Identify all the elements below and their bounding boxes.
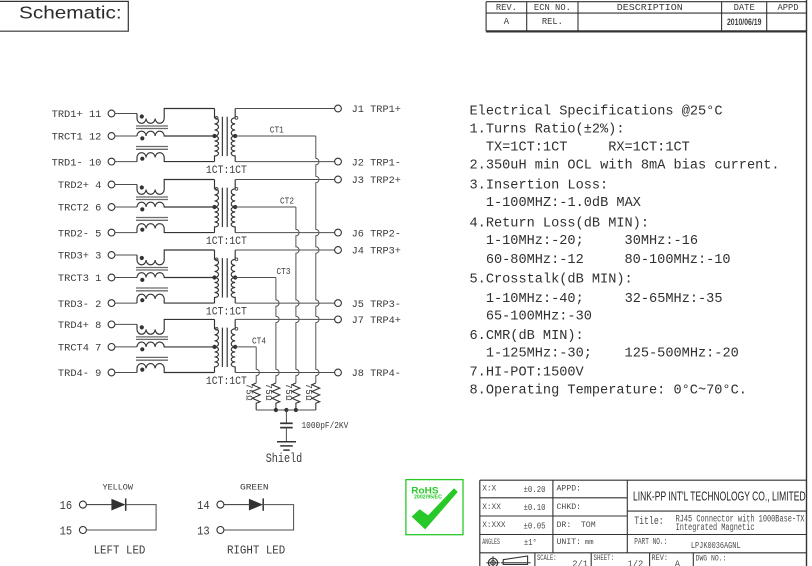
svg-text:REV.: REV. [496, 3, 517, 13]
svg-text:A: A [675, 559, 681, 566]
svg-text:CHKD:: CHKD: [557, 503, 582, 512]
svg-text:TRD4- 9: TRD4- 9 [58, 368, 102, 380]
svg-text:J8 TRP4-: J8 TRP4- [352, 368, 401, 380]
svg-text:J2 TRP1-: J2 TRP1- [352, 157, 401, 169]
svg-text:J5 TRP3-: J5 TRP3- [352, 299, 401, 311]
schematic title box [0, 1, 128, 31]
label YELLOW [103, 482, 134, 492]
terminal J6 TRP2- [335, 228, 401, 240]
svg-text:TX=1CT:1CT RX=1CT:1CT: TX=1CT:1CT RX=1CT:1CT [470, 140, 690, 155]
svg-text:1.Turns Ratio(±2%):: 1.Turns Ratio(±2%): [470, 123, 625, 138]
label CT1 [270, 124, 284, 135]
wire T3 secondary- to J5 [235, 302, 334, 304]
svg-text:13: 13 [197, 525, 210, 538]
wire anode pin 14 [224, 504, 249, 506]
svg-text:SHEET:: SHEET: [594, 553, 615, 563]
svg-text:TRD2- 5: TRD2- 5 [58, 228, 102, 240]
label CT2 [280, 195, 294, 206]
label 1CT:1CT T2 [206, 236, 247, 248]
drawn/checked column text [557, 485, 596, 547]
svg-text:CT3: CT3 [277, 266, 291, 277]
svg-text:1CT:1CT: 1CT:1CT [206, 236, 247, 248]
svg-text:60-80MHz:-12 80-100MHz:-10: 60-80MHz:-12 80-100MHz:-10 [470, 253, 731, 268]
wire cathode to pin 15 [86, 505, 156, 530]
common-mode choke CM4 [136, 319, 215, 372]
svg-text:Title:: Title: [634, 516, 664, 528]
svg-text:1CT:1CT: 1CT:1CT [206, 165, 247, 177]
label GREEN [240, 482, 269, 492]
electrical specifications text block [470, 105, 780, 399]
svg-text:16: 16 [60, 500, 73, 513]
svg-text:2002/95/EC: 2002/95/EC [414, 495, 442, 501]
svg-text:CT2: CT2 [280, 195, 294, 206]
svg-text:±0.05: ±0.05 [524, 521, 546, 531]
terminal J3 TRP2+ [335, 175, 401, 187]
svg-text:J7 TRP4+: J7 TRP4+ [352, 315, 401, 327]
svg-text:TRCT2 6: TRCT2 6 [58, 203, 102, 215]
svg-text:6.CMR(dB MIN):: 6.CMR(dB MIN): [470, 329, 584, 344]
label 1CT:1CT T1 [206, 165, 247, 177]
svg-text:Schematic:: Schematic: [19, 3, 122, 23]
wire T1 secondary- to J2 [235, 161, 334, 163]
svg-text:CT4: CT4 [252, 335, 266, 346]
svg-text:2.350uH min OCL with 8mA bias: 2.350uH min OCL with 8mA bias current. [470, 158, 780, 173]
capacitor C1 1000pF/2KV [280, 410, 293, 442]
wire CT2 vertical bus with hops [296, 207, 299, 383]
wire T4 secondary+ to J7 [235, 318, 334, 320]
svg-text:7.HI-POT:1500V: 7.HI-POT:1500V [470, 366, 584, 381]
wire CT1 center tap [235, 135, 316, 137]
terminal pin 13 [217, 527, 224, 534]
svg-text:2/1: 2/1 [572, 560, 588, 566]
svg-text:Electrical Specifications @25°: Electrical Specifications @25°C [470, 105, 723, 120]
svg-text:REL.: REL. [542, 17, 563, 27]
transformer T3 (1CT:1CT) [212, 250, 237, 303]
diode D YELLOW LED [111, 498, 125, 510]
terminal pin 10 (TRD1-) [52, 157, 137, 169]
revision table header text [496, 3, 799, 13]
terminal pin 12 (TRCT1) [52, 132, 137, 144]
terminal pin 5 (TRD2-) [58, 228, 137, 240]
terminal J1 TRP1+ [335, 104, 401, 116]
svg-text:mm: mm [585, 539, 594, 547]
terminal pin 16 [79, 501, 86, 508]
transformer T1 (1CT:1CT) [212, 109, 237, 162]
svg-text:TRCT4 7: TRCT4 7 [58, 343, 102, 355]
part number [634, 537, 740, 551]
svg-text:75Ω: 75Ω [283, 384, 293, 402]
svg-text:ANGLES: ANGLES [482, 539, 500, 547]
label R3 75Ω [263, 384, 273, 402]
svg-text:2010/06/19: 2010/06/19 [727, 17, 762, 27]
svg-text:1CT:1CT: 1CT:1CT [206, 376, 247, 388]
svg-text:8.Operating Temperature: 0°C~7: 8.Operating Temperature: 0°C~70°C. [470, 383, 747, 398]
title text [634, 514, 804, 534]
label R1 75Ω [303, 384, 313, 402]
common-mode choke CM1 [136, 109, 215, 162]
svg-text:4.Return Loss(dB MIN):: 4.Return Loss(dB MIN): [470, 216, 650, 231]
label CT4 [252, 335, 266, 346]
svg-text:TRD2+ 4: TRD2+ 4 [58, 180, 102, 192]
revision table row A [504, 17, 762, 27]
svg-text:1CT:1CT: 1CT:1CT [206, 306, 247, 318]
svg-text:DWG NO.:: DWG NO.: [696, 553, 727, 563]
terminal J4 TRP3+ [335, 246, 401, 258]
tolerance column text [482, 485, 545, 548]
svg-text:J1 TRP1+: J1 TRP1+ [352, 104, 401, 116]
svg-text:1-100MHZ:-1.0dB MAX: 1-100MHZ:-1.0dB MAX [470, 196, 641, 211]
diode D GREEN LED [249, 498, 263, 510]
svg-text:5.Crosstalk(dB MIN):: 5.Crosstalk(dB MIN): [470, 273, 633, 288]
ground (Shield) [277, 442, 296, 450]
svg-text:SCALE:: SCALE: [537, 553, 557, 563]
scale/sheet/rev row text [537, 553, 726, 566]
terminal J7 TRP4+ [335, 315, 401, 327]
wire CT1 vertical bus with hops [316, 136, 319, 383]
svg-text:APPD: APPD [777, 3, 798, 13]
label RIGHT LED [227, 544, 285, 558]
wire CT3 center tap [235, 277, 276, 279]
svg-text:DR:: DR: [557, 521, 572, 530]
svg-text:TRCT3 1: TRCT3 1 [58, 273, 102, 285]
resistor R3 75Ω [272, 383, 280, 410]
common-mode choke CM2 [136, 180, 215, 233]
terminal pin 7 (TRCT4) [58, 343, 137, 355]
svg-text:75Ω: 75Ω [244, 384, 254, 402]
label CT3 [277, 266, 291, 277]
wire resistor common rail [256, 409, 316, 411]
svg-text:X:X: X:X [482, 486, 496, 494]
transformer T4 (1CT:1CT) [212, 319, 237, 372]
svg-text:3.Insertion Loss:: 3.Insertion Loss: [470, 179, 609, 194]
svg-text:TRCT1 12: TRCT1 12 [52, 132, 102, 144]
wire CT4 center tap [235, 346, 256, 348]
wire T3 secondary+ to J4 [235, 249, 334, 251]
wire cathode to pin 13 [224, 505, 294, 530]
svg-text:1-10MHz:-20; 30MHz:-16: 1-10MHz:-20; 30MHz:-16 [470, 234, 699, 249]
svg-text:X:XXX: X:XXX [482, 522, 506, 530]
wire T1 secondary+ to J1 [235, 108, 334, 110]
svg-text:TOM: TOM [581, 521, 596, 530]
svg-text:X:XX: X:XX [482, 504, 501, 512]
junction dots on rail [274, 408, 298, 412]
terminal J8 TRP4- [335, 368, 401, 380]
terminal J5 TRP3- [335, 299, 401, 311]
svg-text:TRD1+ 11: TRD1+ 11 [52, 109, 102, 121]
terminal pin 15 [79, 527, 86, 534]
wire CT3 vertical bus with hops [276, 278, 279, 384]
terminal pin 2 (TRD3-) [58, 299, 137, 311]
svg-text:65-100MHz:-30: 65-100MHz:-30 [470, 310, 592, 325]
svg-text:LEFT LED: LEFT LED [94, 544, 146, 558]
svg-text:GREEN: GREEN [240, 482, 269, 492]
svg-text:75Ω: 75Ω [263, 384, 273, 402]
svg-text:Shield: Shield [266, 451, 303, 466]
label LEFT LED [94, 544, 146, 558]
title block frame [480, 480, 807, 566]
wire CT4 vertical bus with hops [256, 347, 259, 383]
wire anode pin 16 [86, 504, 111, 506]
terminal pin 4 (TRD2+) [58, 180, 137, 192]
svg-text:UNIT:: UNIT: [557, 538, 582, 547]
revision table frame [486, 2, 806, 32]
svg-text:1-10MHz:-40; 32-65MHz:-35: 1-10MHz:-40; 32-65MHz:-35 [470, 292, 723, 307]
svg-text:DATE: DATE [734, 3, 755, 13]
svg-text:±0.10: ±0.10 [524, 503, 546, 513]
label Shield [266, 451, 303, 466]
svg-text:DESCRIPTION: DESCRIPTION [617, 3, 683, 13]
company name [633, 490, 806, 504]
common-mode choke CM3 [136, 250, 215, 303]
terminal pin 11 (TRD1+) [52, 109, 137, 121]
svg-text:1/2: 1/2 [628, 560, 644, 566]
svg-text:15: 15 [60, 525, 73, 538]
svg-text:LPJK0036AGNL: LPJK0036AGNL [691, 540, 741, 551]
terminal pin 3 (TRD3+) [58, 251, 137, 263]
svg-text:TRD1- 10: TRD1- 10 [52, 157, 102, 169]
svg-text:APPD:: APPD: [557, 485, 582, 494]
svg-text:TRD4+ 8: TRD4+ 8 [58, 320, 102, 332]
label R2 75Ω [283, 384, 293, 402]
resistor R1 75Ω [312, 383, 320, 410]
svg-text:75Ω: 75Ω [303, 384, 313, 402]
label R4 75Ω [244, 384, 254, 402]
RoHS logo [406, 480, 463, 535]
terminal pin 8 (TRD4+) [58, 320, 137, 332]
svg-text:TRD3- 2: TRD3- 2 [58, 299, 102, 311]
svg-text:A: A [504, 17, 510, 27]
labels pins 16/15 [60, 500, 73, 538]
label 1CT:1CT T3 [206, 306, 247, 318]
svg-text:±0.20: ±0.20 [524, 485, 546, 495]
svg-text:1-125MHz:-30; 125-500MHz:-2: 1-125MHz:-30; 125-500MHz:-20 [470, 346, 739, 361]
terminal pin 14 [217, 501, 224, 508]
svg-text:YELLOW: YELLOW [103, 482, 134, 492]
svg-text:J4 TRP3+: J4 TRP3+ [352, 246, 401, 258]
wire T2 secondary+ to J3 [235, 179, 334, 181]
label 1CT:1CT T4 [206, 376, 247, 388]
svg-text:Integrated Magnetic: Integrated Magnetic [676, 522, 755, 533]
labels pins 14/13 [197, 500, 210, 538]
terminal J2 TRP1- [335, 157, 401, 169]
svg-text:±1°: ±1° [524, 538, 537, 548]
svg-text:1000pF/2KV: 1000pF/2KV [302, 420, 349, 431]
terminal pin 1 (TRCT3) [58, 273, 137, 285]
svg-text:14: 14 [197, 500, 210, 513]
label C1 1000pF/2KV [302, 420, 349, 431]
svg-text:RIGHT LED: RIGHT LED [227, 544, 285, 558]
svg-text:CT1: CT1 [270, 124, 284, 135]
wire CT2 center tap [235, 206, 296, 208]
resistor R2 75Ω [292, 383, 300, 410]
svg-text:REV:: REV: [652, 553, 669, 563]
sheet frame right border [806, 0, 808, 566]
svg-text:J6 TRP2-: J6 TRP2- [352, 228, 401, 240]
third angle projection symbol [486, 556, 530, 566]
terminal pin 9 (TRD4-) [58, 368, 137, 380]
svg-text:LINK-PP INT'L TECHNOLOGY CO.,: LINK-PP INT'L TECHNOLOGY CO., LIMITED [633, 490, 806, 504]
svg-text:J3 TRP2+: J3 TRP2+ [352, 175, 401, 187]
wire T4 secondary- to J8 [235, 372, 334, 374]
wire T2 secondary- to J6 [235, 232, 334, 234]
transformer T2 (1CT:1CT) [212, 180, 237, 233]
svg-text:TRD3+ 3: TRD3+ 3 [58, 251, 102, 263]
resistor R4 75Ω [252, 383, 260, 410]
svg-text:PART NO.:: PART NO.: [634, 537, 667, 547]
svg-text:ECN NO.: ECN NO. [534, 3, 571, 13]
terminal pin 6 (TRCT2) [58, 203, 137, 215]
